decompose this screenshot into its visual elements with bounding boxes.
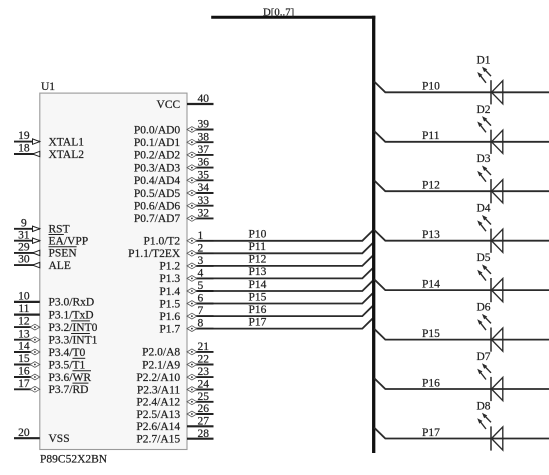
svg-text:18: 18 xyxy=(18,143,30,155)
pin 24 (P2.3/A11) right xyxy=(137,379,214,397)
LED D8 label xyxy=(477,400,491,412)
svg-text:P0.2/AD2: P0.2/AD2 xyxy=(134,150,181,162)
pin 16 (P3.6/WR) left xyxy=(14,366,91,384)
svg-text:P0.1/AD1: P0.1/AD1 xyxy=(134,137,181,149)
wire branch net P14 from bus to LED D5 xyxy=(374,279,549,290)
net label P10 (left) xyxy=(249,229,267,241)
svg-text:P3.4/T0: P3.4/T0 xyxy=(49,347,86,359)
wire branch net P11 from bus to LED D2 xyxy=(374,131,549,142)
pin 37 (P0.2/AD2) right xyxy=(134,144,214,162)
svg-text:38: 38 xyxy=(198,131,210,143)
svg-text:9: 9 xyxy=(21,217,27,229)
LED D7 label xyxy=(477,351,491,363)
IC U1 body (P89C52X2BN) xyxy=(40,93,187,449)
svg-text:P13: P13 xyxy=(249,266,267,278)
svg-text:PSEN: PSEN xyxy=(49,248,78,260)
wire branch net P17 from bus to LED D8 xyxy=(374,428,549,439)
wire net P11 from pin 2 to bus xyxy=(214,242,374,253)
svg-text:P2.4/A12: P2.4/A12 xyxy=(136,397,180,409)
net label P14 (branch) xyxy=(422,279,440,291)
svg-text:P2.1/A9: P2.1/A9 xyxy=(142,359,180,371)
svg-text:P3.1/TxD: P3.1/TxD xyxy=(49,309,94,321)
svg-text:P17: P17 xyxy=(422,427,440,439)
svg-text:P11: P11 xyxy=(422,130,440,142)
pin 29 (PSEN) left xyxy=(14,242,77,260)
pin 15 (P3.5/T1) left xyxy=(14,353,85,371)
svg-text:10: 10 xyxy=(18,291,30,303)
net label P13 (branch) xyxy=(422,229,440,241)
svg-text:D7: D7 xyxy=(477,351,491,363)
svg-text:D8: D8 xyxy=(477,400,491,412)
svg-text:P2.2/A10: P2.2/A10 xyxy=(136,372,180,384)
pin 23 (P2.2/A10) right xyxy=(136,366,213,384)
net label P10 (branch) xyxy=(422,81,440,93)
IC U1 part number label xyxy=(40,454,108,466)
wire net P13 from pin 4 to bus xyxy=(214,267,374,278)
pin 26 (P2.5/A13) right xyxy=(136,403,213,421)
svg-text:P2.7/A15: P2.7/A15 xyxy=(136,434,180,446)
svg-text:26: 26 xyxy=(198,403,210,415)
svg-text:3: 3 xyxy=(198,255,204,267)
svg-text:P10: P10 xyxy=(249,229,267,241)
pin 2 (P1.1/T2EX) right xyxy=(128,242,213,260)
svg-text:P0.3/AD3: P0.3/AD3 xyxy=(134,162,181,174)
svg-text:P0.7/AD7: P0.7/AD7 xyxy=(134,213,181,225)
svg-text:P15: P15 xyxy=(422,328,440,340)
svg-text:23: 23 xyxy=(198,366,210,378)
LED D3 xyxy=(477,166,503,204)
pin 33 (P0.6/AD6) right xyxy=(134,195,214,213)
LED D4 label xyxy=(477,203,491,215)
wire branch net P15 from bus to LED D6 xyxy=(374,329,549,340)
svg-text:P14: P14 xyxy=(422,279,440,291)
svg-text:P11: P11 xyxy=(249,241,267,253)
wire net P10 from pin 1 to bus xyxy=(214,230,374,241)
svg-text:19: 19 xyxy=(18,130,30,142)
LED D5 label xyxy=(477,252,491,264)
pin 32 (P0.7/AD7) right xyxy=(134,208,214,226)
pin 28 (P2.7/A15) right xyxy=(136,428,213,446)
svg-text:D1: D1 xyxy=(477,54,491,66)
svg-text:P2.3/A11: P2.3/A11 xyxy=(137,384,181,396)
svg-text:P1.0/T2: P1.0/T2 xyxy=(143,236,180,248)
svg-text:6: 6 xyxy=(198,293,204,305)
svg-text:28: 28 xyxy=(198,428,210,440)
svg-text:P3.3/INT1: P3.3/INT1 xyxy=(49,335,98,347)
svg-text:P1.3: P1.3 xyxy=(159,273,180,285)
svg-text:14: 14 xyxy=(18,341,30,353)
svg-text:D2: D2 xyxy=(477,104,491,116)
IC U1 reference designator xyxy=(41,81,55,93)
net label P16 (left) xyxy=(249,304,267,316)
svg-text:P0.6/AD6: P0.6/AD6 xyxy=(134,201,181,213)
svg-text:4: 4 xyxy=(198,268,204,280)
net label P15 (branch) xyxy=(422,328,440,340)
svg-text:P89C52X2BN: P89C52X2BN xyxy=(40,454,108,466)
svg-text:2: 2 xyxy=(198,242,204,254)
pin 21 (P2.0/A8) right xyxy=(142,341,213,359)
svg-text:P0.4/AD4: P0.4/AD4 xyxy=(134,175,181,187)
svg-text:P2.6/A14: P2.6/A14 xyxy=(136,421,180,433)
net label P15 (left) xyxy=(249,291,267,303)
pin 11 (P3.1/TxD) left xyxy=(14,303,94,321)
svg-text:P1.4: P1.4 xyxy=(159,286,180,298)
pin 34 (P0.5/AD5) right xyxy=(134,182,214,200)
svg-text:33: 33 xyxy=(198,195,210,207)
pin 38 (P0.1/AD1) right xyxy=(134,131,214,149)
net label P11 (branch) xyxy=(422,130,440,142)
pin 36 (P0.3/AD3) right xyxy=(134,157,214,175)
pin 22 (P2.1/A9) right xyxy=(142,354,213,372)
pin 10 (P3.0/RxD) left xyxy=(14,291,94,309)
wire net P15 from pin 6 to bus xyxy=(214,292,374,303)
wire branch net P13 from bus to LED D4 xyxy=(374,230,549,241)
LED D6 label xyxy=(477,302,491,314)
svg-text:XTAL1: XTAL1 xyxy=(49,136,85,148)
LED D5 xyxy=(477,264,503,302)
bus name label D[0..7] xyxy=(263,6,294,18)
svg-text:37: 37 xyxy=(198,144,210,156)
svg-text:P10: P10 xyxy=(422,81,440,93)
net label P17 (branch) xyxy=(422,427,440,439)
svg-text:31: 31 xyxy=(18,229,30,241)
svg-text:D5: D5 xyxy=(477,252,491,264)
svg-text:11: 11 xyxy=(18,303,29,315)
pin 35 (P0.4/AD4) right xyxy=(134,169,214,187)
svg-text:D[0..7]: D[0..7] xyxy=(263,6,294,18)
wire branch net P10 from bus to LED D1 xyxy=(374,82,549,93)
svg-text:P17: P17 xyxy=(249,316,267,328)
svg-text:P14: P14 xyxy=(249,279,267,291)
bus D[0..7] vertical segment xyxy=(372,16,375,453)
svg-text:36: 36 xyxy=(198,157,210,169)
svg-text:P1.2: P1.2 xyxy=(159,261,180,273)
svg-text:20: 20 xyxy=(18,427,30,439)
svg-text:21: 21 xyxy=(198,341,210,353)
LED D1 xyxy=(477,67,503,105)
pin 1 (P1.0/T2) right xyxy=(143,230,213,248)
svg-text:1: 1 xyxy=(198,230,204,242)
LED D8 xyxy=(477,413,503,451)
pin 9 (RST) left xyxy=(14,217,70,235)
svg-text:15: 15 xyxy=(18,353,30,365)
svg-text:39: 39 xyxy=(198,119,210,131)
svg-text:P1.1/T2EX: P1.1/T2EX xyxy=(128,248,181,260)
pin 19 (XTAL1) left xyxy=(14,130,84,148)
net label P11 (left) xyxy=(249,241,267,253)
pin 12 (P3.2/INT0) left xyxy=(14,316,98,334)
svg-text:U1: U1 xyxy=(41,81,55,93)
net label P12 (branch) xyxy=(422,180,440,192)
svg-text:P15: P15 xyxy=(249,291,267,303)
svg-text:25: 25 xyxy=(198,391,210,403)
svg-text:P16: P16 xyxy=(422,377,440,389)
svg-text:12: 12 xyxy=(18,316,30,328)
svg-text:P3.5/T1: P3.5/T1 xyxy=(49,359,86,371)
svg-text:D4: D4 xyxy=(477,203,491,215)
pin 20 (VSS) left xyxy=(14,427,70,445)
pin 8 (P1.7) right xyxy=(159,318,213,336)
pin 27 (P2.6/A14) right xyxy=(136,415,213,433)
svg-text:D3: D3 xyxy=(477,153,491,165)
LED D2 label xyxy=(477,104,491,116)
wire branch net P12 from bus to LED D3 xyxy=(374,180,549,191)
net label P13 (left) xyxy=(249,266,267,278)
pin 4 (P1.3) right xyxy=(159,268,213,286)
LED D6 xyxy=(477,314,503,352)
svg-text:P3.7/RD: P3.7/RD xyxy=(49,384,89,396)
svg-text:32: 32 xyxy=(198,208,210,220)
pin 31 (EA/VPP) left xyxy=(14,229,88,247)
bus D[0..7] top horizontal segment xyxy=(211,16,375,19)
LED D3 label xyxy=(477,153,491,165)
svg-text:P3.6/WR: P3.6/WR xyxy=(49,372,92,384)
svg-text:27: 27 xyxy=(198,415,210,427)
svg-text:24: 24 xyxy=(198,379,210,391)
net label P12 (left) xyxy=(249,254,267,266)
svg-text:P2.0/A8: P2.0/A8 xyxy=(142,347,180,359)
svg-text:16: 16 xyxy=(18,366,30,378)
svg-text:P1.6: P1.6 xyxy=(159,311,180,323)
svg-text:29: 29 xyxy=(18,242,30,254)
svg-text:P13: P13 xyxy=(422,229,440,241)
pin 17 (P3.7/RD) left xyxy=(14,378,88,396)
pin 39 (P0.0/AD0) right xyxy=(134,119,214,137)
pin 25 (P2.4/A12) right xyxy=(136,391,213,409)
svg-text:VCC: VCC xyxy=(157,99,181,111)
LED D1 label xyxy=(477,54,491,66)
svg-text:P12: P12 xyxy=(249,254,267,266)
pin 18 (XTAL2) left xyxy=(14,143,84,161)
svg-text:D6: D6 xyxy=(477,302,491,314)
LED D4 xyxy=(477,215,503,253)
pin 14 (P3.4/T0) left xyxy=(14,341,85,359)
net label P14 (left) xyxy=(249,279,267,291)
svg-text:P1.7: P1.7 xyxy=(159,323,180,335)
svg-text:P0.0/AD0: P0.0/AD0 xyxy=(134,124,181,136)
svg-text:22: 22 xyxy=(198,354,210,366)
LED D2 xyxy=(477,116,503,154)
pin 5 (P1.4) right xyxy=(159,280,213,298)
svg-text:XTAL2: XTAL2 xyxy=(49,149,85,161)
wire net P16 from pin 7 to bus xyxy=(214,305,374,316)
pin 3 (P1.2) right xyxy=(159,255,213,273)
svg-text:VSS: VSS xyxy=(49,433,70,445)
svg-text:35: 35 xyxy=(198,169,210,181)
svg-text:EA/VPP: EA/VPP xyxy=(49,236,89,248)
svg-text:40: 40 xyxy=(198,93,210,105)
pin 13 (P3.3/INT1) left xyxy=(14,328,98,346)
svg-text:P12: P12 xyxy=(422,180,440,192)
pin 30 (ALE) left xyxy=(14,254,71,272)
pin 6 (P1.5) right xyxy=(159,293,213,311)
svg-text:8: 8 xyxy=(198,318,204,330)
svg-text:7: 7 xyxy=(198,305,204,317)
svg-text:ALE: ALE xyxy=(49,260,71,272)
svg-text:34: 34 xyxy=(198,182,210,194)
svg-text:13: 13 xyxy=(18,328,30,340)
pin 40 (VCC) right xyxy=(157,93,214,111)
wire branch net P16 from bus to LED D7 xyxy=(374,378,549,389)
svg-text:P0.5/AD5: P0.5/AD5 xyxy=(134,188,181,200)
svg-text:P3.0/RxD: P3.0/RxD xyxy=(49,297,95,309)
svg-text:P1.5: P1.5 xyxy=(159,298,180,310)
pin 7 (P1.6) right xyxy=(159,305,213,323)
wire net P14 from pin 5 to bus xyxy=(214,280,374,291)
wire net P17 from pin 8 to bus xyxy=(214,317,374,328)
wire net P12 from pin 3 to bus xyxy=(214,255,374,266)
net label P17 (left) xyxy=(249,316,267,328)
svg-text:17: 17 xyxy=(18,378,30,390)
svg-text:P3.2/INT0: P3.2/INT0 xyxy=(49,322,98,334)
svg-text:5: 5 xyxy=(198,280,204,292)
net label P16 (branch) xyxy=(422,377,440,389)
svg-text:30: 30 xyxy=(18,254,30,266)
svg-text:P16: P16 xyxy=(249,304,267,316)
svg-text:RST: RST xyxy=(49,224,70,236)
svg-text:P2.5/A13: P2.5/A13 xyxy=(136,409,180,421)
LED D7 xyxy=(477,363,503,401)
